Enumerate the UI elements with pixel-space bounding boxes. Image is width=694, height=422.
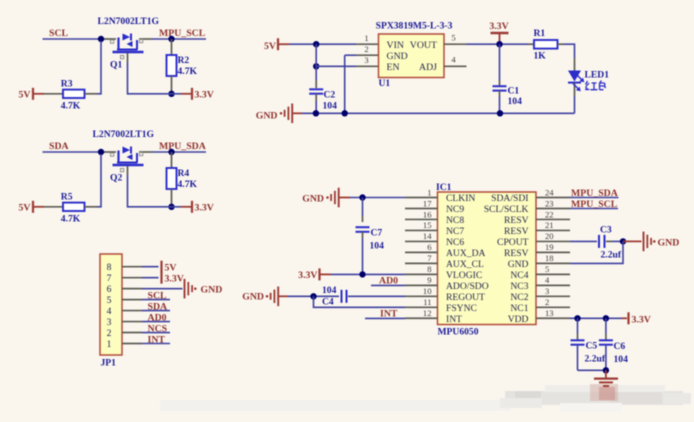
svg-text:SPX3819M5-L-3-3: SPX3819M5-L-3-3 [376, 21, 453, 32]
svg-text:CPOUT: CPOUT [497, 237, 529, 248]
svg-text:NCS: NCS [148, 323, 168, 334]
svg-text:1: 1 [427, 187, 431, 197]
svg-text:R1: R1 [534, 28, 546, 39]
svg-text:Q2: Q2 [110, 173, 122, 184]
svg-text:16: 16 [423, 209, 432, 219]
svg-text:RESV: RESV [504, 226, 529, 237]
svg-text:3: 3 [107, 317, 112, 328]
svg-text:13: 13 [545, 308, 554, 318]
svg-text:7: 7 [427, 253, 432, 263]
svg-text:5V: 5V [264, 41, 276, 52]
svg-text:R5: R5 [61, 192, 73, 203]
svg-text:NC6: NC6 [446, 237, 464, 248]
svg-text:GND: GND [242, 292, 264, 303]
svg-text:NC2: NC2 [510, 292, 528, 303]
svg-text:104: 104 [323, 101, 338, 112]
svg-text:3.3V: 3.3V [298, 270, 317, 281]
svg-text:NC8: NC8 [446, 215, 464, 226]
svg-text:4: 4 [451, 55, 456, 65]
svg-text:9: 9 [427, 275, 431, 285]
svg-text:MPU_SDA: MPU_SDA [571, 188, 618, 199]
svg-text:NC9: NC9 [446, 204, 464, 215]
svg-text:R4: R4 [178, 168, 190, 179]
svg-text:FSYNC: FSYNC [446, 303, 477, 314]
svg-text:SCL: SCL [49, 28, 69, 39]
svg-text:CLKIN: CLKIN [446, 193, 475, 204]
svg-text:8: 8 [107, 262, 112, 273]
svg-text:4: 4 [545, 275, 550, 285]
svg-text:JP1: JP1 [101, 358, 117, 369]
svg-text:21: 21 [545, 220, 554, 230]
svg-text:4: 4 [107, 306, 112, 317]
svg-text:NC1: NC1 [510, 303, 528, 314]
svg-text:SCL/SCLK: SCL/SCLK [484, 204, 529, 215]
svg-text:3: 3 [545, 286, 549, 296]
svg-text:C2: C2 [324, 90, 336, 101]
svg-text:VDD: VDD [508, 314, 529, 325]
svg-text:MPU_SCL: MPU_SCL [159, 28, 206, 39]
svg-text:23: 23 [545, 198, 554, 208]
svg-text:3.3V: 3.3V [632, 314, 651, 325]
svg-text:GND: GND [508, 259, 529, 270]
svg-text:12: 12 [423, 308, 432, 318]
svg-text:C5: C5 [586, 341, 598, 352]
svg-text:2: 2 [545, 297, 549, 307]
svg-text:MPU_SDA: MPU_SDA [159, 141, 206, 152]
svg-text:1: 1 [107, 339, 112, 350]
svg-text:R3: R3 [61, 79, 73, 90]
svg-text:2.2uf: 2.2uf [585, 354, 606, 365]
svg-text:ADJ: ADJ [419, 62, 437, 73]
svg-text:SDA: SDA [148, 301, 168, 312]
svg-text:17: 17 [423, 198, 432, 208]
svg-text:NC4: NC4 [510, 270, 528, 281]
svg-text:GND: GND [658, 237, 680, 248]
svg-text:4.7K: 4.7K [178, 66, 198, 77]
svg-text:C6: C6 [614, 341, 626, 352]
svg-text:19: 19 [545, 242, 554, 252]
svg-text:5V: 5V [19, 203, 31, 214]
svg-text:22: 22 [545, 209, 554, 219]
svg-text:U1: U1 [379, 78, 391, 89]
svg-text:SDA/SDI: SDA/SDI [491, 193, 528, 204]
svg-text:20: 20 [545, 231, 554, 241]
svg-text:104: 104 [322, 285, 337, 296]
svg-text:3.3V: 3.3V [165, 273, 184, 284]
svg-text:10: 10 [423, 286, 432, 296]
svg-text:104: 104 [370, 241, 385, 252]
svg-text:C4: C4 [322, 297, 334, 308]
svg-text:24: 24 [545, 187, 554, 197]
svg-text:4.7K: 4.7K [61, 214, 81, 225]
svg-text:104: 104 [508, 96, 523, 107]
svg-text:R2: R2 [178, 55, 190, 66]
svg-text:GND: GND [302, 194, 324, 205]
svg-text:MPU6050: MPU6050 [438, 327, 479, 338]
svg-text:8: 8 [427, 264, 431, 274]
svg-text:5: 5 [107, 295, 112, 306]
svg-text:7: 7 [107, 273, 112, 284]
svg-text:RESV: RESV [504, 215, 529, 226]
svg-text:AUX_CL: AUX_CL [446, 259, 484, 270]
svg-text:L2N7002LT1G: L2N7002LT1G [98, 16, 160, 27]
svg-text:104: 104 [614, 354, 629, 365]
svg-text:VLOGIC: VLOGIC [446, 270, 482, 281]
svg-text:VIN: VIN [387, 40, 404, 51]
svg-text:4.7K: 4.7K [61, 101, 81, 112]
svg-text:5V: 5V [165, 263, 177, 274]
svg-text:C7: C7 [371, 228, 383, 239]
svg-text:1K: 1K [534, 51, 547, 62]
svg-text:INT: INT [446, 314, 462, 325]
svg-text:C3: C3 [600, 225, 612, 236]
svg-text:14: 14 [423, 231, 432, 241]
svg-text:GND: GND [387, 51, 408, 62]
svg-text:3: 3 [364, 55, 368, 65]
svg-text:Q1: Q1 [110, 60, 122, 71]
svg-text:ADO/SDO: ADO/SDO [446, 281, 489, 292]
svg-text:EN: EN [387, 62, 400, 73]
svg-text:6: 6 [427, 242, 432, 252]
svg-text:4.7K: 4.7K [178, 179, 198, 190]
svg-text:2: 2 [107, 328, 112, 339]
svg-text:INT: INT [148, 334, 166, 345]
svg-text:15: 15 [423, 220, 432, 230]
svg-text:5: 5 [545, 264, 549, 274]
svg-text:2: 2 [364, 44, 368, 54]
svg-text:1: 1 [364, 33, 368, 43]
svg-text:MPU_SCL: MPU_SCL [571, 199, 618, 210]
svg-text:NC7: NC7 [446, 226, 464, 237]
svg-text:3.3V: 3.3V [195, 203, 214, 214]
svg-text:REGOUT: REGOUT [446, 292, 485, 303]
svg-text:IC1: IC1 [436, 182, 452, 193]
svg-text:AD0: AD0 [148, 312, 167, 323]
svg-text:3.3V: 3.3V [195, 90, 214, 101]
svg-text:C1: C1 [508, 86, 520, 97]
svg-text:6: 6 [107, 284, 112, 295]
svg-text:LED1: LED1 [585, 70, 610, 81]
svg-text:5V: 5V [19, 90, 31, 101]
svg-text:18: 18 [545, 253, 554, 263]
svg-text:2.2uf: 2.2uf [601, 250, 622, 261]
svg-text:GND: GND [256, 110, 278, 121]
svg-text:3.3V: 3.3V [489, 21, 508, 32]
svg-text:AUX_DA: AUX_DA [446, 248, 486, 259]
svg-text:5: 5 [451, 33, 455, 43]
svg-text:VOUT: VOUT [410, 40, 437, 51]
svg-text:GND: GND [201, 284, 223, 295]
svg-text:SCL: SCL [148, 290, 168, 301]
svg-text:L2N7002LT1G: L2N7002LT1G [93, 129, 155, 140]
svg-text:11: 11 [423, 297, 431, 307]
svg-text:SDA: SDA [49, 141, 69, 152]
svg-text:RESV: RESV [504, 248, 529, 259]
svg-text:NC3: NC3 [510, 281, 528, 292]
